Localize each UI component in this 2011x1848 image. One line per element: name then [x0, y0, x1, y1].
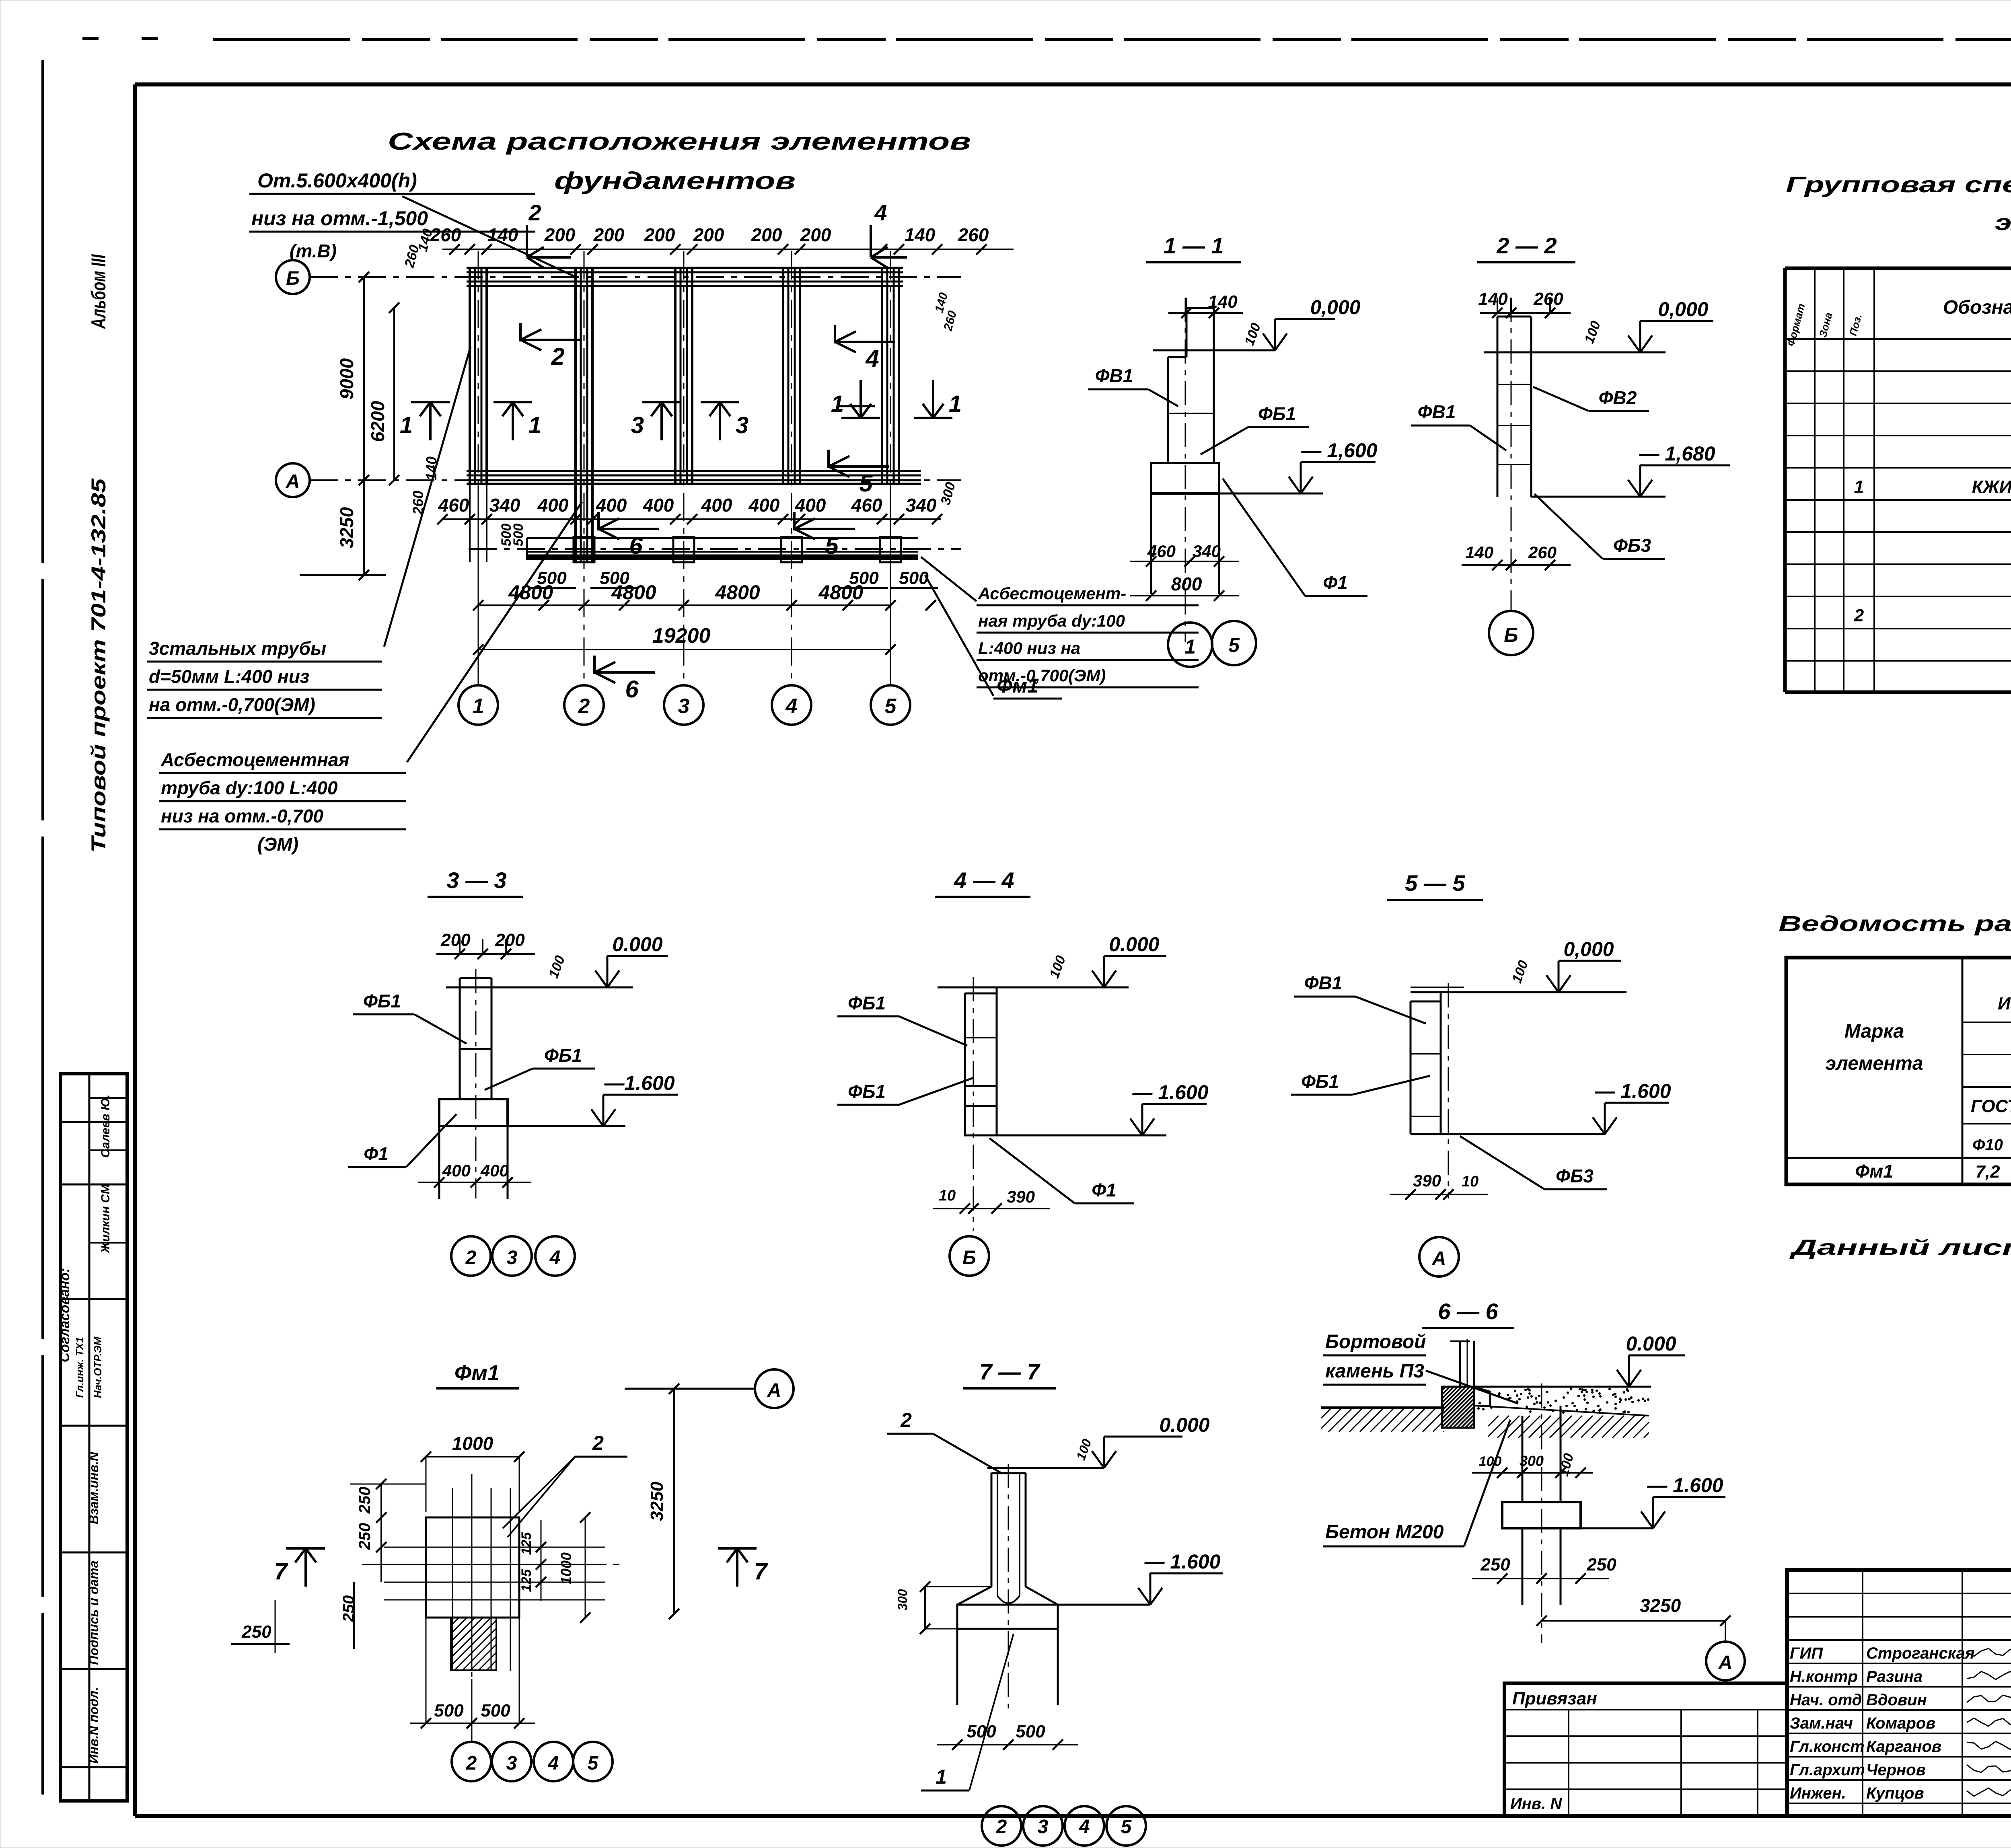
svg-text:2: 2: [592, 1432, 604, 1454]
svg-text:4: 4: [785, 695, 798, 718]
svg-text:3: 3: [678, 695, 690, 718]
svg-text:Марка: Марка: [1844, 1021, 1904, 1042]
svg-text:ФБ1: ФБ1: [848, 993, 886, 1013]
svg-text:Данный лист см. совместно с: Данный лист см. совместно с листом 5: [1789, 1235, 2011, 1260]
svg-text:1: 1: [473, 695, 484, 718]
svg-text:6200: 6200: [367, 401, 388, 442]
svg-text:3: 3: [506, 1753, 517, 1774]
svg-text:125: 125: [519, 1532, 534, 1555]
svg-text:А: А: [767, 1380, 781, 1401]
svg-text:3: 3: [507, 1247, 518, 1268]
svg-text:ная труба dy:100: ная труба dy:100: [978, 611, 1125, 630]
svg-text:5: 5: [859, 470, 873, 497]
section 4-4: [837, 867, 1209, 1276]
svg-text:300: 300: [895, 1589, 910, 1611]
svg-text:ФВ1: ФВ1: [1418, 401, 1456, 422]
plan section mark 4 (top): [871, 200, 907, 268]
svg-text:ФВ2: ФВ2: [1599, 387, 1637, 408]
svg-text:Групповая спецификация для: Групповая спецификация для монолитных: [1786, 172, 2011, 197]
svg-text:4: 4: [865, 345, 879, 372]
plan mark К4: [835, 325, 895, 372]
left margin vertical text: Типовой проект 701-4-132.85: [87, 478, 110, 853]
svg-text:ФБ1: ФБ1: [363, 991, 401, 1011]
svg-text:7 — 7: 7 — 7: [979, 1359, 1040, 1384]
svg-text:250: 250: [356, 1487, 374, 1514]
svg-text:Асбестоцементная: Асбестоцементная: [160, 749, 350, 770]
svg-text:5 — 5: 5 — 5: [1405, 870, 1465, 896]
svg-text:5: 5: [588, 1753, 599, 1774]
section 7-7: [887, 1359, 1223, 1846]
svg-text:6: 6: [629, 532, 643, 559]
leader асбестоцементная (left): [407, 502, 582, 762]
svg-text:А: А: [1432, 1248, 1446, 1269]
svg-text:460: 460: [851, 495, 882, 516]
svg-text:7: 7: [754, 1558, 768, 1585]
plan lower foundation strip with Фм1 squares: [469, 537, 961, 562]
svg-text:4 — 4: 4 — 4: [954, 867, 1014, 893]
svg-text:6 — 6: 6 — 6: [1438, 1299, 1498, 1324]
svg-text:2 — 2: 2 — 2: [1496, 233, 1557, 258]
svg-text:Б: Б: [962, 1247, 976, 1268]
svg-text:3 — 3: 3 — 3: [446, 867, 506, 893]
left margin vertical text: Альбом III: [87, 254, 110, 329]
svg-text:5: 5: [885, 695, 897, 718]
svg-text:Нач.ОТР.ЭМ: Нач.ОТР.ЭМ: [92, 1336, 104, 1398]
svg-text:ФВ1: ФВ1: [1095, 365, 1133, 386]
svg-text:0,000: 0,000: [1563, 938, 1614, 960]
svg-text:500: 500: [899, 568, 929, 588]
svg-text:Гл.конст: Гл.конст: [1790, 1738, 1865, 1755]
svg-text:4: 4: [874, 200, 887, 225]
svg-text:500: 500: [1016, 1722, 1045, 1741]
svg-text:2: 2: [551, 343, 564, 370]
svg-text:250: 250: [356, 1523, 374, 1550]
svg-text:340: 340: [906, 495, 937, 516]
leader асбестоцементная (right): [921, 557, 977, 601]
svg-text:Нач. отд: Нач. отд: [1790, 1691, 1862, 1709]
svg-text:0.000: 0.000: [1159, 1414, 1209, 1436]
svg-text:4800: 4800: [611, 581, 656, 604]
svg-text:1: 1: [831, 391, 844, 417]
svg-text:460: 460: [438, 495, 469, 516]
svg-text:низ на отм.-1,500: низ на отм.-1,500: [251, 207, 428, 230]
plan left dimension lines 9000 6200 3250: [300, 227, 440, 580]
plan mark К6 (upper): [598, 512, 659, 559]
axis line А: [310, 479, 961, 481]
svg-text:Разина: Разина: [1866, 1668, 1923, 1686]
svg-text:А: А: [1718, 1652, 1733, 1673]
svg-text:фундаментов: фундаментов: [554, 167, 796, 194]
svg-text:300: 300: [1520, 1453, 1544, 1469]
plan arrow 1 (bay1): [493, 402, 541, 440]
svg-text:2: 2: [528, 200, 541, 225]
svg-text:10: 10: [1462, 1173, 1478, 1190]
svg-text:Н.контр: Н.контр: [1790, 1668, 1858, 1686]
svg-text:0.000: 0.000: [612, 933, 662, 956]
svg-text:140: 140: [487, 224, 518, 245]
section 1-1: [1088, 233, 1378, 667]
svg-text:0,000: 0,000: [1310, 296, 1360, 319]
svg-text:— 1.600: — 1.600: [1132, 1081, 1208, 1104]
right edge small dims: [932, 291, 959, 507]
svg-text:— 1.600: — 1.600: [1594, 1080, 1671, 1102]
plan mark К5 (in plan): [829, 450, 889, 497]
svg-text:L:400 низ на: L:400 низ на: [978, 639, 1080, 658]
svg-text:0,000: 0,000: [1658, 298, 1708, 321]
axis line Б: [310, 276, 961, 278]
svg-text:Б: Б: [1504, 624, 1518, 646]
axis circle Б: [276, 260, 310, 294]
detail Фм1 plan: [231, 1361, 794, 1781]
plan arrow 3 (bay2): [631, 402, 681, 440]
svg-text:ФБ1: ФБ1: [1258, 403, 1296, 424]
sheet outer top edge (dashed): [82, 39, 2011, 39]
svg-text:1: 1: [1184, 635, 1196, 658]
svg-text:А: А: [286, 471, 300, 492]
svg-text:КЖИ-С1: КЖИ-С1: [1972, 477, 2011, 497]
svg-text:2: 2: [996, 1816, 1007, 1838]
svg-text:400: 400: [795, 495, 826, 516]
svg-text:800: 800: [1171, 574, 1202, 594]
svg-text:500: 500: [481, 1701, 510, 1721]
svg-text:3250: 3250: [336, 507, 357, 548]
annotation асбестоцементная труба (left): [159, 749, 406, 855]
annotation стальные трубы: [147, 638, 382, 718]
leader from note to axis Б: [402, 196, 575, 277]
svg-text:1: 1: [528, 412, 541, 438]
svg-text:3: 3: [1038, 1816, 1049, 1838]
svg-text:10: 10: [939, 1187, 956, 1204]
svg-text:Чернов: Чернов: [1866, 1761, 1926, 1779]
plan bay foundation outlines: [487, 286, 882, 471]
svg-text:1: 1: [949, 391, 962, 417]
svg-text:Гл.архит: Гл.архит: [1790, 1761, 1865, 1779]
svg-text:1: 1: [936, 1766, 947, 1788]
svg-text:200: 200: [440, 930, 471, 950]
svg-text:340: 340: [489, 495, 520, 516]
svg-text:Зам.нач: Зам.нач: [1790, 1714, 1853, 1732]
svg-text:— 1,680: — 1,680: [1639, 442, 1715, 465]
svg-text:400: 400: [480, 1161, 509, 1180]
svg-text:4800: 4800: [715, 581, 760, 604]
plan dimension row 460-340-400: [437, 495, 942, 524]
svg-text:3: 3: [631, 412, 644, 438]
plan dimension row 500 and 4800: [473, 524, 938, 611]
svg-text:0.000: 0.000: [1626, 1332, 1676, 1355]
svg-text:460: 460: [1147, 542, 1176, 561]
svg-text:Привязан: Привязан: [1512, 1689, 1597, 1708]
svg-text:Согласовано:: Согласовано:: [57, 1268, 72, 1363]
svg-text:Ведомость расхода стали на эле: Ведомость расхода стали на элемент, кг: [1779, 912, 2011, 936]
svg-text:Ф1: Ф1: [1323, 572, 1348, 593]
section 3-3: [348, 867, 678, 1276]
svg-text:250: 250: [1480, 1555, 1510, 1575]
svg-text:140: 140: [905, 224, 936, 245]
svg-text:200: 200: [593, 224, 625, 245]
plan strip along axis Б: [467, 268, 903, 286]
svg-text:19200: 19200: [652, 624, 711, 648]
svg-text:400: 400: [537, 495, 569, 516]
svg-text:200: 200: [544, 224, 576, 245]
svg-text:3250: 3250: [647, 1482, 667, 1521]
svg-text:Ф1: Ф1: [1092, 1180, 1117, 1200]
plan grid column axis lines: [478, 251, 890, 685]
svg-text:400: 400: [596, 495, 627, 516]
svg-text:Подпись и дата: Подпись и дата: [86, 1560, 101, 1665]
plan column strips: [470, 268, 899, 562]
svg-text:140: 140: [1478, 289, 1508, 309]
svg-text:Жилкин СМ: Жилкин СМ: [99, 1184, 112, 1254]
svg-text:200: 200: [751, 224, 782, 245]
svg-text:d=50мм L:400 низ: d=50мм L:400 низ: [149, 666, 309, 687]
svg-text:— 1,600: — 1,600: [1301, 439, 1377, 462]
svg-text:Фм1: Фм1: [454, 1361, 500, 1385]
svg-text:500: 500: [511, 524, 526, 547]
svg-text:1000: 1000: [452, 1433, 493, 1454]
svg-text:ФВ1: ФВ1: [1304, 972, 1343, 993]
svg-text:400: 400: [442, 1161, 471, 1180]
svg-text:0.000: 0.000: [1109, 933, 1159, 956]
svg-text:Инв.N подл.: Инв.N подл.: [86, 1687, 101, 1764]
svg-text:ФБ1: ФБ1: [848, 1081, 886, 1102]
svg-text:1 — 1: 1 — 1: [1164, 233, 1223, 258]
note От.5.600х400(h): [249, 169, 535, 261]
svg-text:От.5.600х400(h): От.5.600х400(h): [257, 169, 417, 192]
svg-text:260: 260: [1528, 543, 1557, 562]
svg-text:4800: 4800: [818, 581, 863, 604]
svg-text:элементов: элементов: [1995, 210, 2011, 235]
svg-text:1: 1: [1854, 477, 1864, 497]
svg-text:200: 200: [495, 930, 525, 950]
svg-text:250: 250: [1586, 1555, 1616, 1575]
svg-text:на отм.-0,700(ЭМ): на отм.-0,700(ЭМ): [149, 694, 315, 715]
title block: [1787, 1570, 2011, 1817]
plan arrow 1 down (bay4): [831, 380, 880, 418]
svg-text:Асбестоцемент-: Асбестоцемент-: [978, 584, 1126, 603]
svg-text:ФБ1: ФБ1: [544, 1045, 582, 1066]
svg-text:Изделия арматурные: Изделия арматурные: [1998, 994, 2011, 1013]
svg-text:4: 4: [548, 1753, 559, 1774]
svg-text:—1.600: —1.600: [604, 1072, 674, 1094]
svg-text:2: 2: [578, 695, 590, 718]
ведомость расхода стали table: [1779, 912, 2011, 1184]
svg-text:2: 2: [900, 1409, 912, 1431]
svg-text:(т.В): (т.В): [290, 241, 337, 261]
svg-text:ГОСТ 5781-82: ГОСТ 5781-82: [1971, 1096, 2011, 1116]
svg-text:Обозначение: Обозначение: [1943, 297, 2011, 318]
svg-text:(ЭМ): (ЭМ): [257, 834, 298, 855]
svg-text:ГИП: ГИП: [1790, 1644, 1823, 1662]
svg-text:340: 340: [1193, 542, 1221, 561]
svg-text:— 1.600: — 1.600: [1647, 1474, 1723, 1496]
label Фм1 on plan: [925, 575, 1062, 699]
svg-text:Вдовин: Вдовин: [1866, 1691, 1927, 1709]
svg-text:200: 200: [693, 224, 724, 245]
annotation асбестоцементная труба (right): [977, 584, 1199, 687]
plan dimension row 19200: [473, 484, 896, 685]
svg-text:5: 5: [1121, 1816, 1132, 1838]
svg-text:2: 2: [465, 1247, 477, 1268]
section 2-2: [1411, 233, 1730, 655]
svg-text:Карганов: Карганов: [1866, 1738, 1941, 1755]
svg-text:Бортовой: Бортовой: [1325, 1331, 1426, 1353]
svg-text:4: 4: [1079, 1816, 1090, 1838]
svg-text:390: 390: [1007, 1187, 1035, 1206]
svg-text:125: 125: [519, 1569, 534, 1592]
svg-text:9000: 9000: [336, 358, 357, 399]
svg-text:Ф10: Ф10: [1972, 1136, 2003, 1154]
plan column 1 strip extension: [470, 484, 487, 562]
svg-text:400: 400: [748, 495, 780, 516]
svg-text:2: 2: [1854, 606, 1864, 625]
svg-text:3: 3: [736, 412, 748, 438]
svg-text:Фм1: Фм1: [1855, 1161, 1894, 1182]
main title line 1: [388, 128, 971, 155]
svg-text:400: 400: [643, 495, 674, 516]
svg-text:— 1.600: — 1.600: [1144, 1550, 1220, 1573]
svg-text:Инв. N: Инв. N: [1510, 1795, 1562, 1813]
svg-text:250: 250: [340, 1595, 358, 1623]
section 6-6: [1321, 1299, 1745, 1680]
svg-text:3250: 3250: [1640, 1595, 1681, 1616]
svg-text:200: 200: [800, 224, 831, 245]
svg-text:Типовой проект 701-4-132.85: Типовой проект 701-4-132.85: [87, 478, 110, 853]
svg-text:Бетон М200: Бетон М200: [1325, 1521, 1444, 1543]
plan arrow 3 (bay3): [701, 402, 748, 440]
plan mark К5 (lower): [794, 512, 855, 559]
svg-text:5: 5: [1228, 634, 1240, 656]
plan arrow 1 down (outside): [914, 380, 962, 418]
svg-text:Альбом III: Альбом III: [87, 254, 110, 329]
axis circle А: [276, 463, 310, 497]
svg-text:260: 260: [958, 224, 989, 245]
svg-text:6: 6: [625, 676, 639, 703]
main title line 2: [554, 167, 796, 194]
plan top dimension row: [430, 224, 1014, 255]
svg-text:500: 500: [434, 1701, 464, 1721]
svg-text:низ на отм.-0,700: низ на отм.-0,700: [161, 806, 323, 826]
specification table: [1785, 172, 2011, 692]
svg-text:200: 200: [644, 224, 675, 245]
svg-text:Строганская: Строганская: [1866, 1644, 1974, 1662]
svg-text:140: 140: [1465, 543, 1493, 562]
plan arrow 1 (left outside): [400, 402, 450, 440]
svg-text:260: 260: [1533, 289, 1563, 309]
svg-text:1000: 1000: [558, 1552, 574, 1585]
svg-text:250: 250: [241, 1622, 271, 1642]
svg-text:Комаров: Комаров: [1866, 1714, 1935, 1732]
svg-text:5: 5: [825, 532, 839, 559]
plan mark К6 (lower): [594, 656, 655, 703]
svg-text:2: 2: [466, 1753, 477, 1774]
svg-text:4: 4: [549, 1247, 561, 1268]
svg-text:ФБ1: ФБ1: [1301, 1071, 1339, 1092]
svg-text:7,2: 7,2: [1975, 1162, 2000, 1182]
svg-text:100: 100: [1479, 1454, 1502, 1469]
plan grid circles 1-5: [459, 685, 910, 725]
svg-text:Б: Б: [286, 268, 300, 289]
section 5-5: [1291, 870, 1671, 1277]
plan mark К2: [520, 323, 581, 370]
svg-text:1: 1: [400, 412, 413, 438]
sheet outer left edge: [41, 60, 44, 1795]
left margin stamp table: [57, 1074, 127, 1801]
svg-text:3стальных трубы: 3стальных трубы: [149, 638, 326, 659]
svg-text:500: 500: [966, 1722, 996, 1741]
привязан block: [1504, 1683, 1787, 1816]
svg-text:Фм1: Фм1: [997, 674, 1038, 697]
svg-text:элемента: элемента: [1826, 1053, 1923, 1074]
plan strip along axis А: [467, 471, 921, 484]
svg-text:390: 390: [1413, 1171, 1441, 1190]
svg-text:труба dy:100 L:400: труба dy:100 L:400: [161, 777, 338, 798]
svg-text:400: 400: [701, 495, 732, 516]
svg-text:ФБ3: ФБ3: [1556, 1166, 1594, 1186]
svg-text:Взам.инв.N: Взам.инв.N: [86, 1451, 101, 1524]
svg-text:ФБ3: ФБ3: [1613, 535, 1651, 556]
plan section mark 2 (top): [527, 200, 571, 268]
leader стальные трубы: [384, 347, 471, 647]
svg-text:Инжен.: Инжен.: [1790, 1784, 1846, 1802]
svg-text:Гл.инж. ТХ1: Гл.инж. ТХ1: [74, 1337, 86, 1398]
svg-text:Салеев Ю.: Салеев Ю.: [99, 1094, 112, 1157]
note данный лист: [1789, 1235, 2011, 1260]
svg-text:Ф1: Ф1: [364, 1143, 389, 1164]
svg-text:Купцов: Купцов: [1866, 1784, 1924, 1802]
svg-text:Схема расположения элементов: Схема расположения элементов: [388, 128, 971, 155]
svg-text:7: 7: [274, 1558, 288, 1585]
svg-text:камень П3: камень П3: [1325, 1361, 1424, 1382]
